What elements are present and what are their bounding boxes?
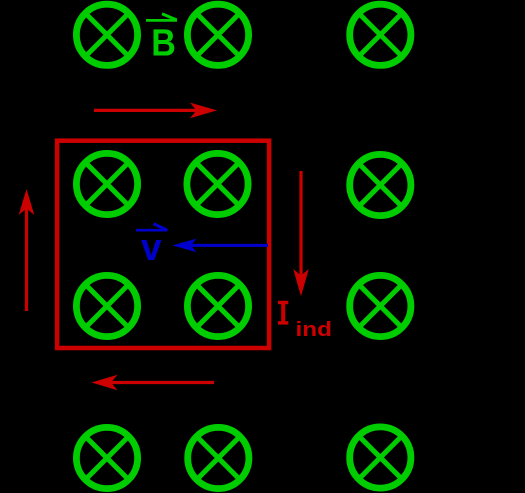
B-field symbol row4 col3 (350, 427, 411, 488)
B-field symbol row3 col2 (187, 275, 248, 336)
induced current arrow right (downward) (293, 171, 309, 296)
B-field symbol row2 col2 (187, 153, 248, 214)
B-field symbol row1 col1 (76, 4, 137, 65)
label B (151, 23, 176, 65)
velocity arrow (leftward, blue) (173, 239, 269, 253)
B-field symbol row1 col3 (350, 4, 411, 65)
B-field symbol row3 col3 (350, 275, 411, 336)
B-field symbol row3 col1 (76, 275, 137, 336)
svg-text:v: v (141, 227, 162, 269)
label B vector arrow (146, 14, 177, 21)
induced current arrow top (rightward) (94, 103, 217, 119)
B-field symbol row4 col1 (76, 427, 137, 488)
svg-text:ind: ind (296, 319, 333, 341)
svg-text:B: B (151, 23, 176, 65)
B-field symbol row1 col2 (187, 4, 248, 65)
B-field symbol row2 col3 (350, 154, 411, 215)
label v vector arrow (136, 224, 168, 230)
B-field symbol row2 col1 (76, 153, 137, 214)
label v (141, 227, 162, 269)
induced current arrow bottom (leftward) (92, 375, 215, 391)
label I_ind (278, 301, 332, 341)
induced current arrow left (upward) (19, 189, 35, 311)
conducting loop (red square) (57, 141, 269, 348)
B-field symbol row4 col2 (188, 427, 249, 488)
